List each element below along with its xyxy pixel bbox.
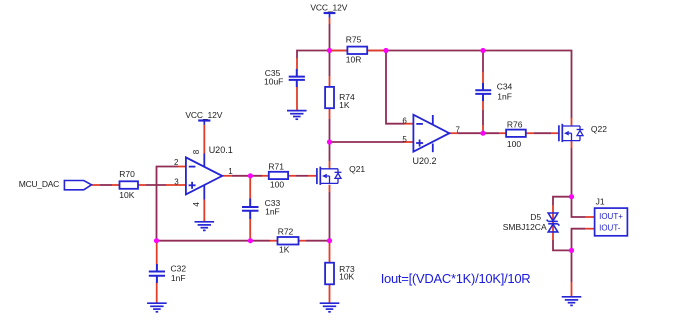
svg-text:R72: R72 [278,227,294,237]
svg-text:U20.1: U20.1 [209,145,233,155]
svg-text:100: 100 [270,180,284,190]
svg-text:J1: J1 [596,197,605,207]
svg-text:10R: 10R [346,54,362,64]
svg-text:Q21: Q21 [349,164,365,174]
svg-text:VCC_12V: VCC_12V [185,110,222,120]
svg-text:Iout=[(VDAC*1K)/10K]/10R: Iout=[(VDAC*1K)/10K]/10R [381,271,531,286]
svg-text:10K: 10K [119,190,134,200]
svg-text:3: 3 [174,178,179,187]
svg-text:R76: R76 [507,120,523,130]
svg-text:IOUT-: IOUT- [599,223,621,232]
svg-text:1: 1 [228,167,233,176]
svg-text:4: 4 [192,202,201,207]
svg-text:10uF: 10uF [264,76,283,86]
svg-text:1nF: 1nF [171,273,186,283]
svg-text:10K: 10K [339,272,354,282]
svg-text:100: 100 [507,139,521,149]
svg-text:IOUT+: IOUT+ [599,212,623,221]
svg-text:2: 2 [174,158,179,167]
svg-text:MCU_DAC: MCU_DAC [19,179,60,189]
svg-text:1K: 1K [339,100,350,110]
svg-text:1nF: 1nF [497,91,512,101]
svg-text:VCC_12V: VCC_12V [310,2,347,12]
svg-text:R75: R75 [346,35,362,45]
svg-text:8: 8 [192,149,201,154]
svg-text:R71: R71 [268,162,284,172]
svg-text:5: 5 [402,135,407,144]
svg-text:C34: C34 [497,82,513,92]
svg-text:1K: 1K [279,245,290,255]
svg-text:D5: D5 [530,212,541,222]
svg-text:SMBJ12CA: SMBJ12CA [503,222,547,232]
svg-text:1nF: 1nF [265,207,280,217]
svg-text:7: 7 [456,125,461,134]
svg-text:6: 6 [402,116,407,125]
svg-text:R70: R70 [119,169,135,179]
svg-text:U20.2: U20.2 [413,156,437,166]
svg-text:Q22: Q22 [591,124,607,134]
